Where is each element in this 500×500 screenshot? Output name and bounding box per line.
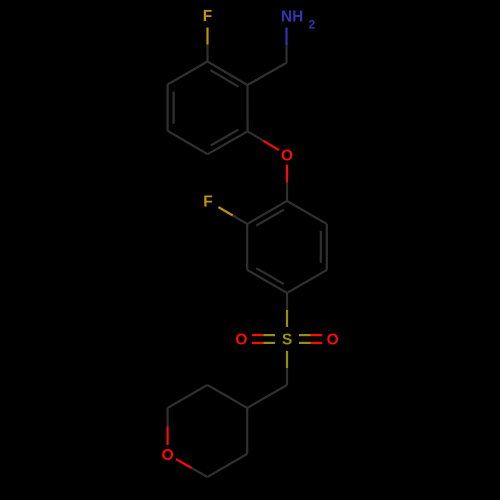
svg-text:O: O: [235, 331, 247, 348]
ring A bond C3-C4 (double): [167, 85, 169, 131]
oxane bond C5-C4: [207, 385, 247, 408]
svg-text:O: O: [162, 447, 174, 464]
bond C6(ring A)-O ether: [248, 131, 264, 140]
oxane bond C6-C5: [168, 385, 208, 408]
ring A bond C6-C1: [246, 85, 248, 131]
bond F2-C2 (aryl fluoride, ring B): [218, 207, 232, 215]
bond F1-C2 (aryl fluoride, ring A): [206, 28, 208, 45]
oxane bond C4-C3: [246, 408, 248, 454]
svg-text:F: F: [203, 8, 212, 25]
ring B bond C1-C2 (double): [247, 201, 287, 224]
svg-text:F: F: [203, 193, 212, 210]
ring B bond C3-C4 (double): [247, 270, 287, 293]
svg-text:NH: NH: [281, 9, 303, 26]
bond CH2-C1 (benzylic attach, ring A): [248, 63, 287, 85]
ring A bond C2-C3: [168, 62, 208, 85]
bond CH2-C4 (oxane ring): [247, 385, 287, 408]
oxane bond O-C6: [167, 426, 169, 445]
double bond S=O (right): [299, 334, 311, 336]
svg-text:O: O: [281, 147, 293, 164]
bond N-CH2 (amine to benzylic carbon): [285, 28, 287, 46]
ring B bond C6-C1: [287, 201, 327, 224]
oxane bond C3-C2: [207, 454, 247, 477]
ring B bond C2-C3: [246, 224, 248, 270]
ring B bond C5-C6 (double): [326, 224, 328, 270]
oxane bond C2-O: [192, 468, 208, 477]
ring A bond C5-C6 (double): [208, 131, 248, 154]
ring A bond C1-C2 (double): [208, 62, 248, 86]
bond C4(ring B)-S sulfonyl: [286, 293, 288, 310]
ring A bond C4-C5: [168, 131, 208, 154]
bond S-CH2 (sulfonyl methylene): [286, 351, 288, 368]
svg-text:2: 2: [309, 18, 316, 32]
double bond S=O (left): [263, 334, 275, 336]
bond O ether-C1 (ring B): [286, 165, 288, 183]
ring B bond C4-C5: [287, 270, 327, 293]
svg-text:O: O: [327, 331, 339, 348]
svg-text:S: S: [282, 331, 292, 348]
